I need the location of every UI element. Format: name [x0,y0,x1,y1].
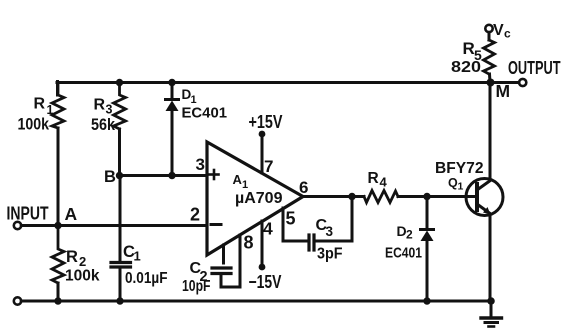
resistor R3 [114,83,126,130]
svg-text:R: R [463,39,475,58]
svg-text:4: 4 [263,219,273,239]
op-amp plus input mark [210,170,219,179]
resistor R5 [484,32,495,82]
wire input row to pin 2 [21,224,207,227]
wire C1 to bottom rail [119,267,122,301]
svg-text:BFY72: BFY72 [435,160,484,177]
svg-text:V: V [493,22,504,39]
wire R1 to node A [57,128,60,226]
svg-text:EC401: EC401 [385,245,422,262]
svg-text:B: B [104,168,116,186]
wire C3 to output node [314,197,352,242]
node D2 top [423,193,430,200]
wire R2 to bottom rail [57,283,60,301]
input terminal [14,222,21,229]
wire C2 bottom to pin 8 [221,274,240,288]
svg-text:R: R [94,97,106,114]
op-amp minus input mark [211,223,221,226]
node D1 bottom on B row [168,172,175,179]
svg-text:0.01µF: 0.01µF [125,270,168,287]
svg-text:2: 2 [190,205,200,225]
svg-text:A: A [233,172,243,187]
svg-text:3pF: 3pF [317,246,343,263]
svg-text:100k: 100k [18,116,50,134]
node A [54,222,61,229]
svg-text:5: 5 [286,209,296,229]
capacitor C2 [212,268,231,274]
svg-text:1: 1 [134,249,141,264]
capacitor C3 [309,235,314,250]
svg-text:6: 6 [299,178,308,197]
transistor Q1 [466,179,503,216]
ground [481,301,502,327]
svg-text:10pF: 10pF [182,278,211,295]
svg-text:+15V: +15V [249,112,283,132]
resistor R2 [52,226,64,284]
svg-text:1: 1 [458,181,464,193]
pin 4 wire to -15V [259,221,266,270]
svg-text:R: R [34,96,46,113]
svg-text:INPUT: INPUT [7,204,49,224]
node C1 bottom rail [116,297,123,304]
output terminal [519,79,526,86]
svg-text:4: 4 [380,175,388,190]
node output at C3 branch [348,193,355,200]
svg-text:2: 2 [406,228,413,242]
wire Q1 collector to node M [489,83,492,180]
svg-text:56k: 56k [91,115,115,134]
node bottom rail at R2 [54,297,61,304]
svg-text:c: c [504,27,511,41]
svg-text:EC401: EC401 [182,105,228,122]
wire R4 to Q1 base [398,195,476,198]
svg-text:−15V: −15V [249,272,282,292]
wire top left corner down [56,82,59,96]
svg-text:µA709: µA709 [235,190,283,207]
svg-text:Q: Q [448,176,458,190]
wire node B down to C1 [119,176,122,262]
pin 8 wire [239,235,242,287]
diode D2 [421,197,434,302]
svg-text:OUTPUT: OUTPUT [508,58,561,78]
capacitor C1 [111,263,131,268]
svg-text:3: 3 [196,155,205,174]
svg-text:7: 7 [264,157,273,176]
resistor R4 [364,191,398,203]
node on top rail at D1 [168,79,175,86]
svg-text:M: M [496,81,511,101]
wire node B row to op-amp pin 3 [120,174,208,177]
svg-text:100k: 100k [65,268,100,285]
wire top rail [57,81,519,84]
svg-text:A: A [65,204,78,224]
node D2 bottom rail [423,297,430,304]
svg-text:3: 3 [326,224,334,239]
op-amp U1 triangle [207,142,303,255]
wire bottom rail [21,300,491,303]
pin 5 wire [283,208,307,241]
wire R3 to node B [118,129,121,176]
diode D1 [166,83,179,176]
svg-text:R: R [66,248,78,266]
wire op-amp output to R4 [303,195,364,198]
bottom-left terminal [14,297,21,304]
svg-text:820: 820 [451,59,481,76]
wire Q1 emitter to bottom rail [489,215,492,302]
resistor R1 [52,83,64,129]
node B [116,172,123,179]
node M [487,79,495,87]
svg-text:8: 8 [244,233,254,253]
Vc terminal [485,25,492,32]
node emitter bottom rail [487,297,495,305]
pin 7 wire to +15V [259,131,266,173]
node on top rail at R3 [116,79,123,86]
svg-text:R: R [368,170,379,187]
pin 1 stub [222,245,225,263]
